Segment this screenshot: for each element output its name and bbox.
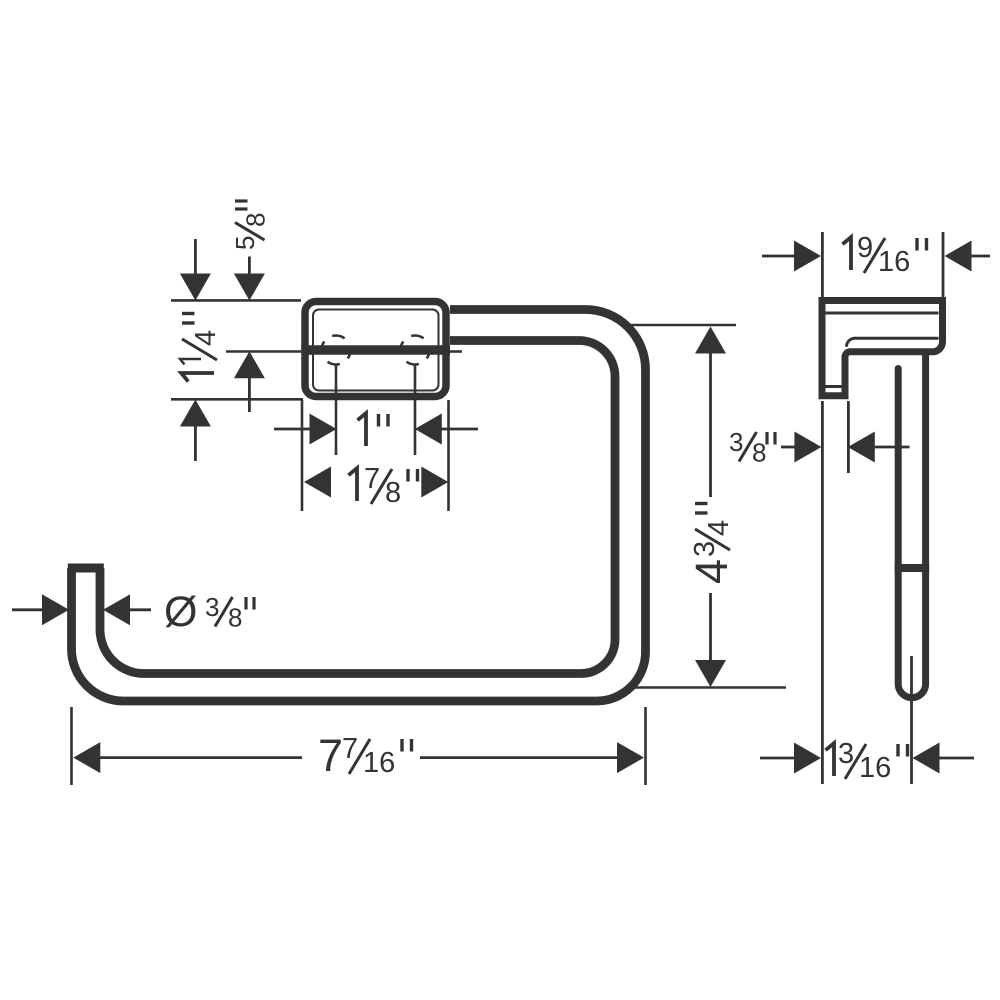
label 1 1/4 rotated [180, 314, 222, 382]
extension line 1 9/16 right [942, 232, 945, 299]
extension line plate bottom [171, 398, 303, 401]
post extension line left [335, 364, 338, 455]
svg-text:16: 16 [859, 752, 891, 784]
dimension 3/8 left arrow [781, 446, 795, 449]
svg-text:3: 3 [729, 427, 743, 457]
svg-text:3: 3 [205, 592, 219, 622]
svg-text:7: 7 [318, 730, 343, 781]
svg-text:8: 8 [385, 477, 401, 509]
label 1 3/16 [826, 738, 908, 784]
dimension dia 3/8 right arrow [103, 594, 130, 625]
dimension 1 1/4 lower arrow [180, 400, 211, 427]
extension line 4 3/4 bottom [630, 686, 786, 689]
dimension 7 7/16 left arrow [73, 742, 100, 773]
side plate step line [824, 385, 843, 388]
dimension 1 7/8 right arrow [421, 467, 448, 498]
dimension 1 9/16 right arrow [945, 241, 972, 272]
dimension 5/8 upper arrow [248, 257, 251, 276]
hanging bar [898, 355, 925, 697]
side bracket outer contour [822, 301, 943, 396]
label 1 9/16 [843, 232, 927, 278]
bar center line [910, 656, 913, 784]
dimension 7 7/16 right arrow [420, 756, 617, 759]
extension line 1 9/16 left [821, 232, 824, 299]
dimension 1 inch right arrow [415, 414, 442, 445]
dimension 1 3/16 left arrow [760, 757, 794, 760]
dimension 1 9/16 left arrow [762, 255, 794, 258]
extension line side plate front down [847, 401, 850, 473]
svg-text:4: 4 [190, 330, 222, 346]
label 3/8 [729, 427, 775, 468]
label 5/8 rotated [230, 201, 271, 250]
label dia 3/8 [164, 588, 254, 636]
ring outer silhouette [72, 310, 646, 702]
extension line ring right bottom [644, 707, 647, 785]
svg-text:8: 8 [241, 213, 271, 227]
svg-text:Ø: Ø [164, 588, 197, 636]
label 1 inch [358, 413, 389, 446]
ring inner silhouette [100, 341, 615, 674]
dimension 1 inch left arrow [274, 428, 310, 431]
extension line 4 3/4 top [625, 324, 736, 327]
wall plate outer [305, 302, 446, 397]
extension line plate top [171, 299, 301, 302]
side bar top edge [847, 338, 939, 347]
label 4 3/4 rotated [686, 504, 737, 585]
extension line band right [450, 350, 462, 353]
svg-text:4: 4 [686, 559, 737, 584]
dimension 4 3/4 bottom arrow [709, 593, 712, 661]
bar joint crossbar [895, 564, 930, 572]
dimension 1 3/16 right arrow [913, 743, 940, 774]
wall plate inner line [313, 310, 439, 391]
svg-text:16: 16 [363, 747, 395, 779]
dimension dia 3/8 left arrow [12, 608, 44, 611]
hidden post circle left [322, 336, 351, 365]
label 7 7/16 [318, 730, 412, 781]
extension line side plate left down [821, 401, 824, 784]
side plate seam line [826, 312, 939, 315]
hook end cap [68, 564, 104, 573]
svg-text:4: 4 [703, 520, 735, 536]
svg-text:8: 8 [752, 438, 766, 468]
extension line plate left edge down [301, 400, 304, 511]
svg-text:8: 8 [228, 603, 242, 633]
extension line hook bottom [70, 707, 73, 785]
label 1 7/8 [349, 463, 418, 509]
extension line plate right edge down [447, 400, 450, 511]
dimension 5/8 lower arrow [234, 351, 265, 378]
svg-text:16: 16 [878, 246, 910, 278]
post extension line right [414, 364, 417, 455]
extension line band left [226, 350, 301, 353]
dimension 4 3/4 top arrow [695, 327, 726, 354]
svg-text:5: 5 [230, 236, 260, 250]
dimension 1 7/8 left arrow [304, 467, 331, 498]
hidden post circle right [401, 336, 430, 365]
bar band across plate [301, 345, 450, 354]
dimension 1 1/4 upper arrow [194, 239, 197, 275]
dimension 3/8 right arrow [848, 432, 875, 463]
